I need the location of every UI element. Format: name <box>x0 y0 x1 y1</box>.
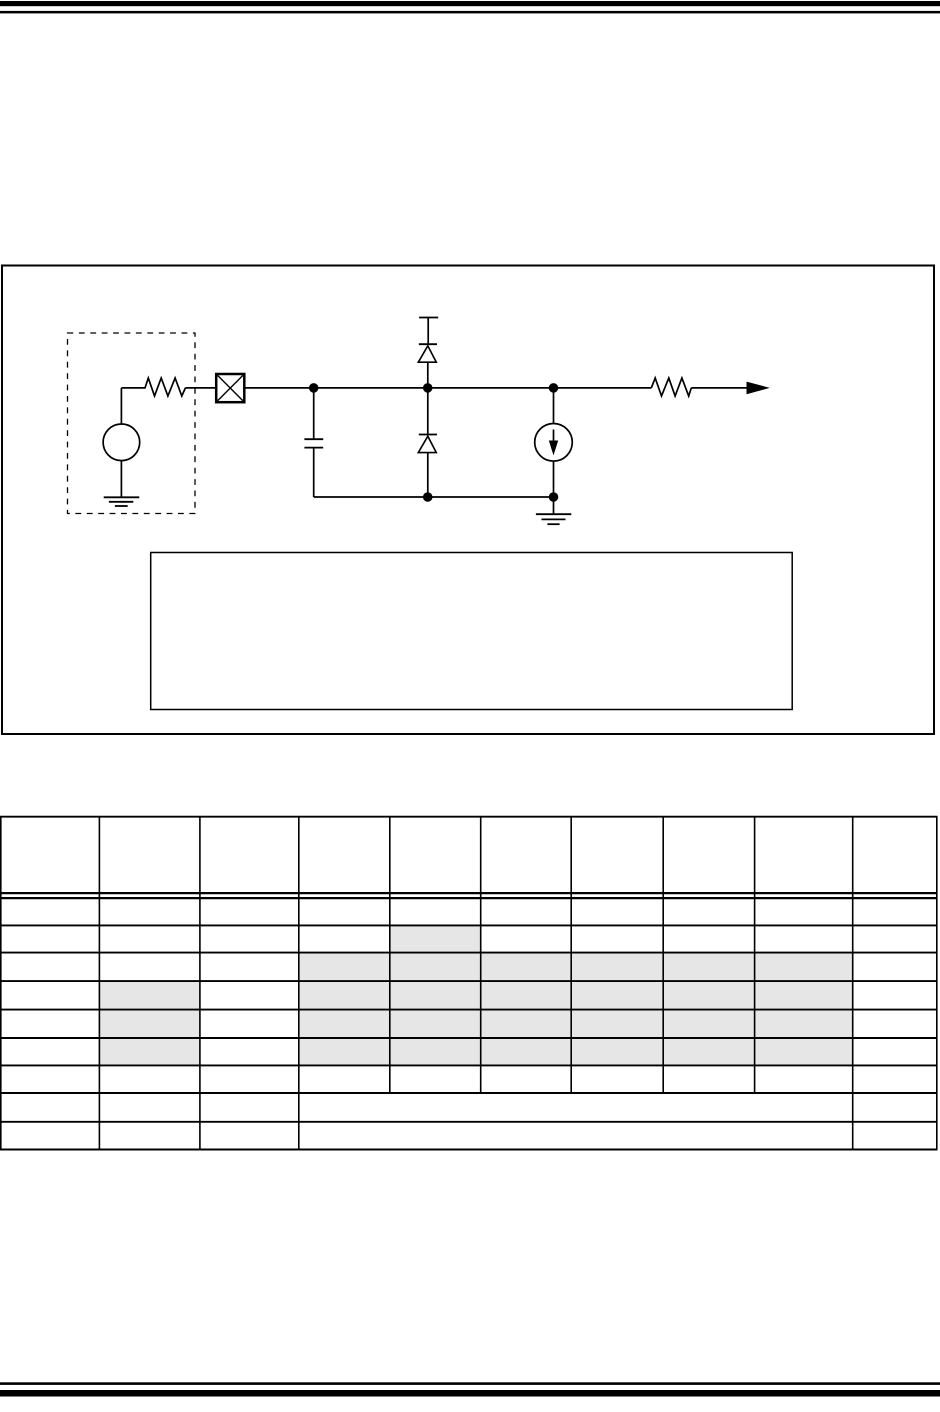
wire to output <box>691 387 747 389</box>
node E <box>549 492 559 502</box>
ground (vss) <box>536 497 571 524</box>
voltage source VA <box>103 388 140 497</box>
node C <box>549 383 559 393</box>
pin pad symbol <box>216 374 244 402</box>
node D <box>423 492 433 502</box>
resistor RS <box>121 378 185 396</box>
resistor RIC <box>651 378 691 396</box>
capacitor CPIN <box>304 388 323 497</box>
table grid <box>0 817 938 1150</box>
current source ILEAKAGE <box>535 388 573 497</box>
note box <box>151 553 793 710</box>
page header double rule <box>0 1 940 13</box>
dashed source box <box>68 333 196 514</box>
page footer double rule <box>0 1382 940 1396</box>
node B <box>423 383 433 393</box>
ground (source) <box>104 497 140 506</box>
figure frame box <box>2 266 934 735</box>
diode D1 <box>418 344 437 388</box>
VDD supply tap <box>419 318 438 345</box>
table shading <box>100 926 852 1064</box>
arrow to ADC <box>747 382 770 395</box>
wire main rail <box>244 387 651 389</box>
wire <box>185 387 216 389</box>
node A <box>309 383 319 393</box>
diode D2 <box>418 388 437 497</box>
bottom rail wire <box>314 496 554 498</box>
